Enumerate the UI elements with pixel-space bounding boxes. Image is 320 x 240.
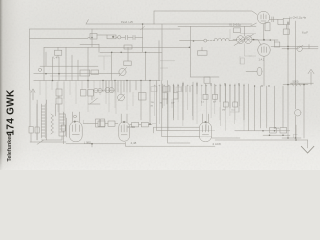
svg-text:Ul. 2×0,1µ: Ul. 2×0,1µ [229, 23, 241, 27]
svg-text:16,4: 16,4 [274, 126, 280, 130]
svg-text:IP 32Ω: IP 32Ω [127, 125, 135, 129]
svg-text:L 98Ω: L 98Ω [84, 141, 91, 145]
svg-text:Pend. L25: Pend. L25 [121, 20, 133, 24]
svg-text:2M: 2M [222, 110, 225, 112]
svg-text:2 AC8: 2 AC8 [213, 142, 222, 146]
svg-text:1 A 1: 1 A 1 [259, 58, 265, 62]
svg-text:6 µF: 6 µF [302, 31, 308, 35]
svg-text:L 4: L 4 [54, 56, 58, 60]
svg-text:5000: 5000 [293, 80, 299, 84]
svg-text:Lu (2×0,1)µ 4a: Lu (2×0,1)µ 4a [289, 15, 307, 19]
svg-text:174 GWK: 174 GWK [6, 89, 17, 135]
svg-text:4,48: 4,48 [131, 141, 137, 145]
svg-text:Telefunken: Telefunken [7, 133, 13, 161]
